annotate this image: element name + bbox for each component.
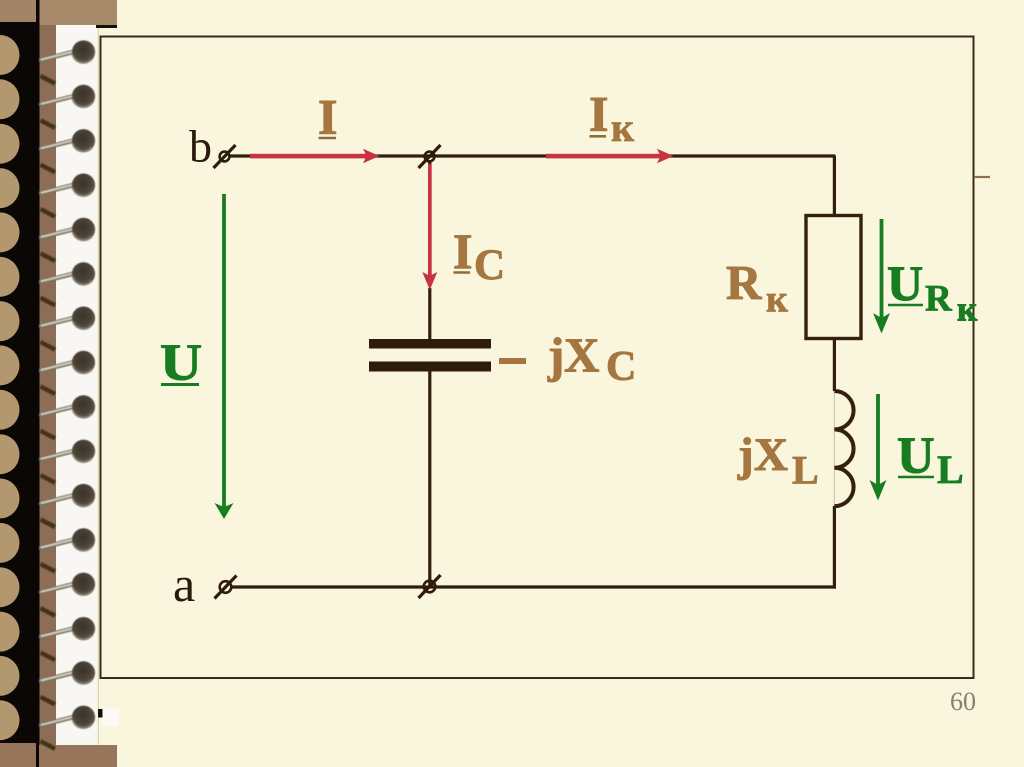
terminal at node b [214, 145, 236, 168]
current arrow Ic (red) [422, 164, 437, 290]
svg-text:U: U [887, 255, 923, 311]
svg-text:b: b [189, 121, 212, 172]
svg-text:R: R [726, 255, 762, 310]
svg-text:к: к [957, 290, 978, 329]
wire: capacitor branch vertical [428, 160, 431, 166]
wire: inductor to bottom bus [833, 506, 836, 589]
svg-text:C: C [606, 344, 636, 390]
svg-text:I: I [589, 86, 608, 142]
svg-text:j: j [547, 328, 564, 383]
svg-text:L: L [792, 448, 819, 493]
svg-text:I: I [453, 223, 472, 279]
svg-text:X: X [564, 328, 599, 383]
inductor jXL coil [833, 391, 835, 506]
svg-text:к: к [611, 105, 634, 150]
wire: resistor to inductor [833, 338, 836, 391]
voltage arrow URk (green) [873, 219, 890, 334]
capacitor C plates [369, 339, 491, 349]
svg-text:U: U [160, 333, 202, 390]
svg-text:L: L [937, 447, 964, 492]
terminal at node a [215, 576, 237, 599]
svg-text:к: к [766, 279, 788, 321]
svg-text:j: j [737, 429, 754, 481]
voltage arrow UL (green) [870, 394, 887, 501]
svg-text:a: a [173, 556, 195, 612]
resistor Rk [806, 216, 861, 339]
svg-text:R: R [925, 279, 953, 320]
current arrow I (red) [250, 149, 380, 163]
current arrow Ik (red) [546, 149, 674, 163]
wire: right branch down to resistor [833, 156, 836, 216]
wire: bottom bus from node a to right branch [232, 585, 836, 588]
svg-text:I: I [318, 89, 337, 145]
value label -jXc [499, 358, 526, 364]
terminal junction bottom middle [419, 575, 441, 598]
svg-text:C: C [474, 242, 505, 289]
svg-text:X: X [754, 429, 788, 481]
svg-text:60: 60 [950, 687, 976, 716]
wire: top bus from node b to right branch [230, 154, 836, 157]
terminal junction top middle [419, 145, 441, 168]
voltage arrow U (green) [215, 194, 234, 519]
